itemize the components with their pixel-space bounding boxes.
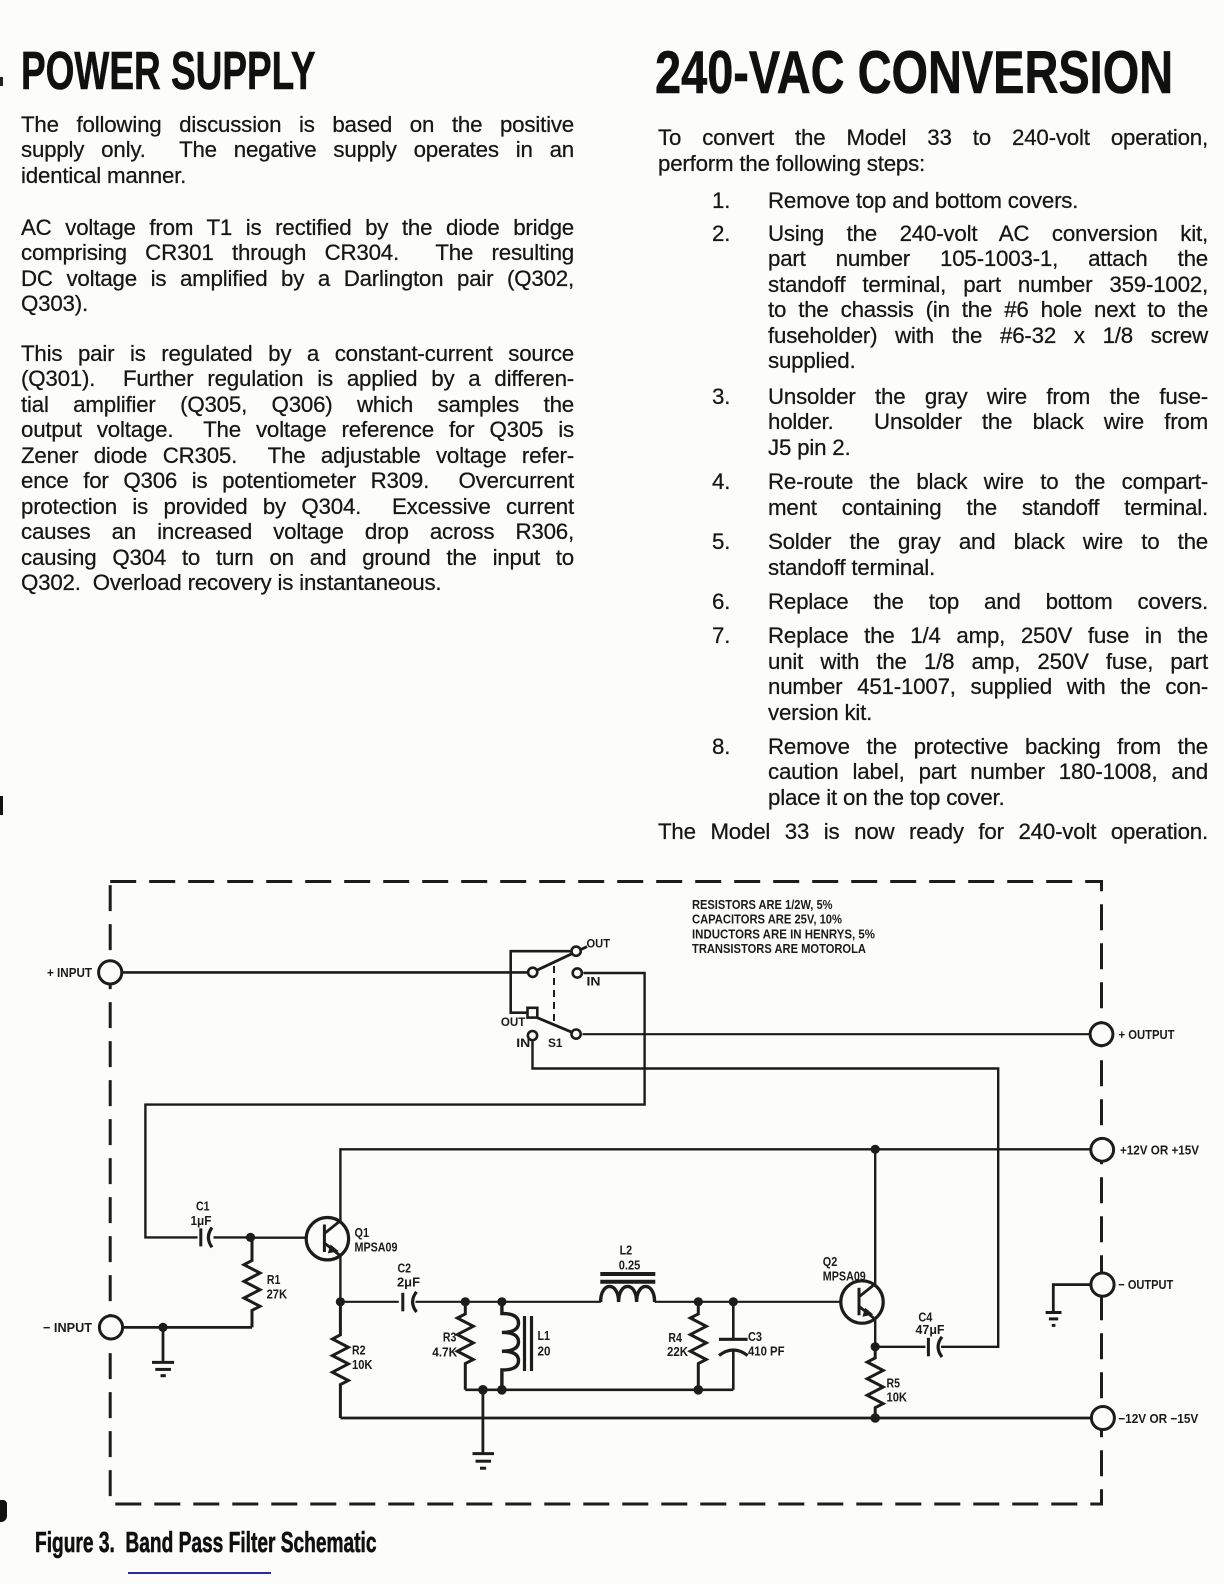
svg-text:10K: 10K (887, 1391, 908, 1405)
svg-text:R4: R4 (668, 1331, 682, 1345)
svg-text:TRANSISTORS ARE MOTOROLA: TRANSISTORS ARE MOTOROLA (692, 942, 866, 956)
svg-text:27K: 27K (267, 1287, 288, 1301)
svg-text:C3: C3 (748, 1330, 762, 1344)
resistor R1 27K (244, 1237, 287, 1327)
svg-text:2μF: 2μF (397, 1275, 420, 1289)
svg-text:Q2: Q2 (823, 1255, 838, 1269)
svg-text:410 PF: 410 PF (748, 1344, 785, 1358)
wire -OUTPUT to ground (1053, 1285, 1091, 1313)
svg-text:L2: L2 (620, 1244, 633, 1258)
svg-text:OUT: OUT (501, 1015, 526, 1029)
resistor R3 4.7K (432, 1302, 473, 1390)
wire -12V rail (340, 1417, 1091, 1420)
switch S1 (501, 937, 611, 1051)
svg-text:20: 20 (538, 1345, 551, 1359)
wire emitter node to C2 (340, 1301, 398, 1303)
wire C2 to tank node (416, 1301, 601, 1303)
junction R4 top (694, 1297, 703, 1306)
svg-text:S1: S1 (548, 1036, 563, 1050)
svg-text:− OUTPUT: − OUTPUT (1118, 1277, 1173, 1292)
node +OUTPUT (1090, 1023, 1174, 1046)
wire Q1 emitter down (339, 1255, 341, 1302)
transistor Q2 MPSA09 (823, 1255, 883, 1323)
svg-text:OUT: OUT (587, 937, 611, 951)
ground at input (152, 1327, 174, 1375)
wire S1 top IN down and across to C1 (145, 973, 644, 1237)
svg-text:R2: R2 (352, 1344, 366, 1358)
svg-text:10K: 10K (352, 1358, 373, 1372)
junction Q1 emitter node (336, 1297, 345, 1306)
node -12V OR -15V (1091, 1407, 1198, 1430)
wire Q2 emitter down (874, 1318, 876, 1347)
wire +12V rail and Q1 collector riser (340, 1149, 1090, 1221)
junction L1 bottom (497, 1385, 507, 1395)
resistor R5 10K (867, 1347, 907, 1418)
svg-text:C2: C2 (398, 1261, 412, 1275)
junction C3 top (729, 1297, 738, 1306)
ground at -OUTPUT (1046, 1313, 1062, 1326)
note text: design rules (692, 898, 875, 956)
svg-text:22K: 22K (667, 1345, 688, 1359)
capacitor C2 (397, 1261, 420, 1312)
svg-text:IN: IN (516, 1036, 530, 1050)
junction R4 bottom (694, 1385, 704, 1395)
svg-text:− INPUT: − INPUT (43, 1320, 92, 1335)
node +12V OR +15V (1091, 1138, 1199, 1161)
svg-text:R1: R1 (267, 1273, 281, 1287)
node +INPUT (47, 961, 122, 984)
svg-text:−12V OR −15V: −12V OR −15V (1118, 1411, 1198, 1426)
junction R5 bottom on -12V rail (870, 1413, 880, 1423)
svg-text:L1: L1 (538, 1329, 551, 1343)
svg-text:R5: R5 (887, 1377, 901, 1391)
svg-text:R3: R3 (443, 1331, 457, 1345)
inductor L2 0.25 (600, 1244, 655, 1303)
node -INPUT (43, 1316, 123, 1339)
wire Q2 collector riser (874, 1149, 876, 1285)
svg-text:INDUCTORS ARE IN HENRYS, 5%: INDUCTORS ARE IN HENRYS, 5% (692, 927, 875, 941)
capacitor C1 (191, 1200, 251, 1248)
edge ink marks (0, 796, 3, 815)
svg-text:RESISTORS ARE 1/2W, 5%: RESISTORS ARE 1/2W, 5% (692, 898, 833, 912)
node -OUTPUT (1091, 1273, 1173, 1296)
svg-text:MPSA09: MPSA09 (355, 1241, 398, 1255)
wire -INPUT to R1 (123, 1326, 252, 1329)
capacitor C3 410 PF (719, 1302, 785, 1390)
svg-text:CAPACITORS ARE 25V, 10%: CAPACITORS ARE 25V, 10% (692, 913, 842, 927)
junction R3 top (461, 1297, 470, 1306)
caption (35, 1527, 377, 1560)
svg-text:+ INPUT: + INPUT (47, 965, 92, 980)
wire node to Q1 base (251, 1236, 307, 1238)
svg-text:47μF: 47μF (916, 1323, 945, 1337)
ground at tank bottom (473, 1390, 495, 1468)
svg-text:MPSA09: MPSA09 (823, 1270, 866, 1284)
blue underline (128, 1572, 271, 1575)
wire +INPUT to S1 common (122, 971, 528, 974)
junction on +12V rail (871, 1145, 880, 1154)
transistor Q1 MPSA09 (306, 1218, 397, 1260)
resistor R2 10K (332, 1302, 372, 1418)
wire bottom node R3/L1/R4/C3 (465, 1389, 733, 1392)
wire S1 lower arm to +OUTPUT (583, 1033, 1091, 1035)
wire S1 lower IN down, across and to C4 right plate (533, 1040, 999, 1347)
junction -INPUT ground tap (158, 1323, 167, 1332)
svg-text:+12V OR +15V: +12V OR +15V (1120, 1143, 1199, 1158)
inductor L1 20 (502, 1302, 551, 1390)
svg-text:Q1: Q1 (355, 1226, 370, 1240)
svg-text:4.7K: 4.7K (432, 1346, 457, 1360)
junction C1/R1/base node (246, 1233, 255, 1242)
svg-text:C1: C1 (196, 1200, 210, 1214)
junction L1 top (497, 1297, 506, 1306)
svg-text:0.25: 0.25 (619, 1258, 641, 1272)
svg-text:IN: IN (587, 975, 601, 989)
wire L2 to Q2 base (655, 1301, 842, 1303)
junction Q2 emitter node (871, 1342, 880, 1351)
resistor R4 22K (667, 1302, 706, 1390)
svg-text:1μF: 1μF (191, 1214, 212, 1228)
svg-text:+ OUTPUT: + OUTPUT (1119, 1027, 1175, 1042)
capacitor C4 47uF (875, 1310, 945, 1357)
wire S1 top OUT link to lower pole (511, 951, 572, 1013)
junction ground tap on bottom node (478, 1385, 488, 1395)
